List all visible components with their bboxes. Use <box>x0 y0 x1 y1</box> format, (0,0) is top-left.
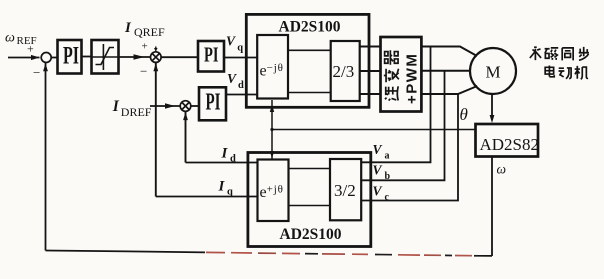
svg-text:+: + <box>27 42 34 56</box>
wire omega feedback red dashed scan section <box>206 251 225 253</box>
block e^+jtheta rotator <box>258 160 289 222</box>
wire omega feedback up to S1 <box>45 63 47 251</box>
svg-text:2/3: 2/3 <box>333 62 355 81</box>
block 2/3 transform <box>331 41 360 101</box>
wire 2/3 to inverter phase b <box>360 70 381 72</box>
block PI speed regulator <box>58 40 82 74</box>
label PMSM chinese line1 <box>530 47 541 60</box>
svg-text:AD2S82: AD2S82 <box>480 135 540 154</box>
wire Iq output <box>156 196 258 198</box>
wire Vq to e-jtheta <box>224 57 257 59</box>
svg-text:c: c <box>385 192 390 203</box>
wire S3 to PI d-axis <box>191 105 199 107</box>
svg-text:+: + <box>142 41 148 53</box>
svg-text:V: V <box>227 71 237 86</box>
svg-text:d: d <box>230 154 236 165</box>
svg-text:V: V <box>373 142 383 157</box>
block PI d-axis current regulator <box>199 87 226 120</box>
block PI q-axis current regulator <box>198 41 224 72</box>
block limiter saturation <box>92 40 119 74</box>
wire inverter to motor phase b <box>421 70 470 72</box>
wire theta up into e-jtheta <box>271 100 273 130</box>
wire theta bus to rotators <box>272 129 476 131</box>
svg-text:DREF: DREF <box>121 105 152 119</box>
wire I-QREF stub into S2 <box>155 47 157 51</box>
svg-text:ω: ω <box>5 31 15 46</box>
svg-text:AD2S100: AD2S100 <box>280 226 342 243</box>
block AD2S82 RDC <box>476 124 539 157</box>
block 3/2 transform <box>330 159 361 220</box>
label inverter ni-bian-qi vertical <box>385 86 398 100</box>
svg-text:a: a <box>385 151 390 162</box>
block e^-jtheta rotator <box>257 35 288 99</box>
wire inverter to motor phase c <box>421 86 477 94</box>
svg-text:ω: ω <box>497 162 507 177</box>
svg-text:PI: PI <box>204 42 219 66</box>
wire e-jtheta to 2/3 upper <box>288 49 331 51</box>
motor M PMSM <box>470 48 516 94</box>
wire theta down into e+jtheta <box>271 130 273 160</box>
wire Id feedback up to S3 <box>185 111 187 162</box>
wire omega feedback bottom black parts <box>478 255 492 257</box>
svg-text:−: − <box>33 65 40 80</box>
svg-text:d: d <box>238 80 244 91</box>
wire 2/3 to inverter phase a <box>360 46 381 48</box>
svg-text:+PWM: +PWM <box>404 53 421 104</box>
block AD2S100 bottom 3/2+Park <box>248 153 371 247</box>
svg-text:I: I <box>221 146 229 162</box>
wire e-jtheta to 2/3 lower <box>288 92 331 94</box>
wire Vc sense tap <box>361 94 458 201</box>
wire PI to limiter <box>82 56 92 58</box>
svg-text:V: V <box>226 33 236 48</box>
wire Vb sense tap <box>361 71 444 180</box>
svg-text:M: M <box>486 63 501 82</box>
svg-text:I: I <box>112 98 120 115</box>
wire S1 to PI speed regulator <box>51 57 57 59</box>
wire 3/2 to e+jtheta upper <box>289 168 331 170</box>
wire I-DREF into S3 <box>150 105 180 107</box>
wire omega from AD2S82 down <box>491 157 493 257</box>
svg-text:b: b <box>385 171 391 182</box>
wire Va sense tap <box>361 47 430 163</box>
svg-text:I: I <box>218 179 226 195</box>
wire 2/3 to inverter phase c <box>360 93 381 95</box>
block AD2S100 top Park+2/3 <box>246 14 369 107</box>
svg-text:3/2: 3/2 <box>334 181 356 200</box>
svg-text:PI: PI <box>63 43 79 70</box>
wire limiter to S2 <box>119 56 151 58</box>
wire Id output <box>186 162 258 164</box>
wire S2 to PI q-axis <box>161 56 198 58</box>
summing junction S1 speed error <box>41 53 51 63</box>
summing junction S3 d-current error <box>180 101 191 112</box>
wire Iq feedback up to S2 <box>155 62 157 196</box>
svg-text:θ: θ <box>460 105 468 124</box>
label PMSM chinese line2 <box>545 65 554 76</box>
wire Vd to e-jtheta <box>226 94 257 96</box>
svg-text:V: V <box>373 163 383 178</box>
svg-text:V: V <box>373 184 383 199</box>
summing junction S2 q-current error <box>151 52 162 63</box>
svg-text:q: q <box>237 42 243 53</box>
block inverter PWM <box>381 37 422 112</box>
svg-text:QREF: QREF <box>134 25 165 39</box>
wire speed reference input <box>8 57 40 59</box>
wire inverter to motor phase a <box>421 47 477 57</box>
wire 3/2 to e+jtheta lower <box>289 205 331 207</box>
svg-text:−: − <box>140 64 147 79</box>
wire motor shaft to AD2S82 <box>491 94 493 117</box>
svg-text:PI: PI <box>206 90 221 116</box>
node theta tee <box>270 128 273 131</box>
svg-text:q: q <box>227 187 233 198</box>
svg-text:I: I <box>124 20 132 36</box>
svg-text:AD2S100: AD2S100 <box>279 19 341 36</box>
